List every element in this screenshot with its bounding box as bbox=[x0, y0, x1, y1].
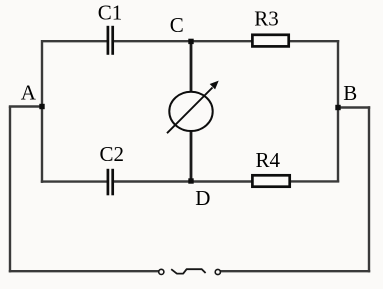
svg-text:C1: C1 bbox=[98, 1, 123, 25]
wire: top rail C1 to node C to R3 bbox=[114, 40, 253, 42]
meter adjustment arrow bbox=[167, 81, 219, 134]
meter (galvanometer) U1 bbox=[169, 92, 212, 131]
switch S1 right terminal bbox=[215, 269, 220, 274]
svg-text:R4: R4 bbox=[255, 148, 280, 172]
svg-text:C: C bbox=[170, 13, 184, 37]
wire: top rail R3 to right corner bbox=[290, 40, 340, 42]
wire: outer left to node A bbox=[9, 105, 42, 107]
node A bbox=[39, 104, 44, 109]
wire: lower branch left corner to C2 bbox=[41, 180, 107, 182]
wire: outer right vertical bbox=[368, 106, 370, 272]
svg-text:C2: C2 bbox=[100, 142, 125, 166]
wire: bottom rail left segment from switch bbox=[9, 270, 159, 272]
wire: bottom rail right segment to switch bbox=[220, 270, 370, 272]
capacitor C1 bbox=[108, 26, 113, 55]
wire: node C down to meter bbox=[190, 41, 193, 92]
node B bbox=[335, 105, 340, 110]
wire: left vertical through node A (top corner to bottom corner) bbox=[41, 40, 43, 183]
wire: lower branch C2 to node D to R4 bbox=[114, 180, 253, 182]
node C bbox=[188, 39, 193, 44]
wire: top rail from left corner to C1 bbox=[42, 40, 107, 42]
svg-text:D: D bbox=[195, 186, 210, 210]
capacitor C2 bbox=[108, 169, 113, 196]
resistor R4 bbox=[252, 175, 289, 186]
wire: meter down to node D bbox=[190, 131, 193, 182]
wire: lower branch R4 to right corner bbox=[291, 180, 340, 182]
node D bbox=[188, 178, 193, 183]
svg-text:R3: R3 bbox=[254, 7, 279, 31]
svg-text:A: A bbox=[21, 81, 37, 105]
resistor R3 bbox=[252, 35, 288, 47]
svg-text:B: B bbox=[343, 81, 357, 105]
switch S1 blade bbox=[171, 269, 205, 273]
switch S1 left terminal bbox=[159, 269, 164, 274]
wire: right mid vertical from top corner through B down to R4 branch bbox=[337, 40, 339, 182]
wire: outer left vertical bbox=[9, 107, 11, 273]
wire: node B to outer right bbox=[338, 106, 370, 108]
